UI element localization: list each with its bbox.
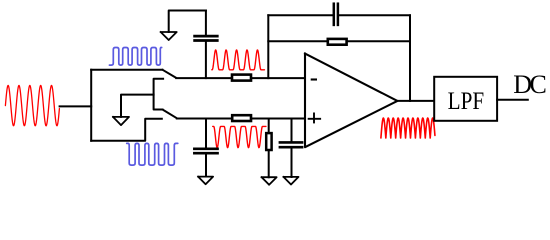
ground G3 [198, 177, 213, 185]
resistor R3 [266, 133, 271, 150]
ground G1 [161, 32, 177, 40]
feedback mid wire right [347, 40, 410, 42]
wire: common node to ground [121, 95, 154, 117]
ground G5 [284, 177, 299, 185]
resistor R1 [232, 75, 251, 81]
op-amp inverting input marker - [311, 78, 317, 80]
feedback capacitor Cf [333, 4, 336, 25]
op-amp U1 [305, 54, 397, 148]
capacitor C2 branch wires [205, 119, 207, 148]
capacitor C1 branch wires [205, 42, 207, 78]
capacitor C4 branch wires [291, 119, 293, 142]
wire: non-inverting input line [177, 118, 305, 120]
ground G4 [262, 177, 277, 185]
op-amp non-inverting input marker + [308, 118, 321, 120]
feedback node wire (vertical) [267, 15, 269, 78]
ground (chopper common) [113, 117, 129, 125]
wire: top rail to switch S1 [91, 69, 162, 71]
wire: input split vertical [90, 70, 92, 141]
clock square wave CLK2 (blue) [127, 143, 178, 165]
feedback resistor Rf [328, 39, 347, 45]
feedback top wire right [339, 14, 410, 16]
LPF block [434, 77, 497, 121]
wire: LPF output [497, 99, 528, 101]
feedback right vertical wire [409, 15, 411, 101]
modulated output signal (red) [381, 118, 435, 138]
feedback top wire left [268, 14, 332, 16]
resistor R2 [232, 115, 251, 121]
wire: inverting input line [176, 77, 305, 79]
svg-text:LPF: LPF [448, 86, 485, 115]
clock square wave CLK1 (blue) [109, 48, 161, 66]
input signal sine wave Vin (red) [5, 85, 59, 125]
wire: bottom rail [91, 119, 162, 141]
capacitor C2 [194, 147, 217, 150]
switch S1 lever (top chopper) [162, 70, 176, 78]
chopped signal top (red) [212, 50, 265, 70]
svg-text:DC: DC [513, 70, 545, 99]
capacitor C4 [280, 141, 302, 144]
switch S2 lever (bottom chopper) [163, 110, 177, 119]
capacitor C1 [195, 35, 218, 38]
wire: switch common node M [154, 79, 164, 110]
resistor R3 branch wires [268, 119, 270, 133]
op-amp output wire [397, 100, 434, 102]
wire: input to chopper [60, 105, 92, 107]
chopped signal bottom (red) [213, 126, 266, 147]
feedback mid wire left [268, 40, 326, 42]
